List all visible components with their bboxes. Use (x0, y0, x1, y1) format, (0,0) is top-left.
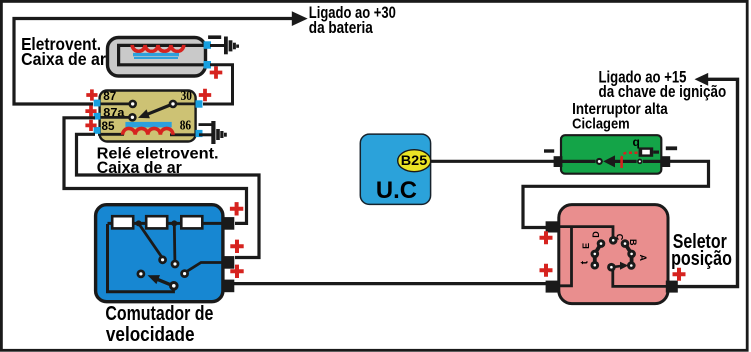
pressure element stub (653, 151, 659, 154)
relay wire stub pin 87a (98, 116, 130, 119)
switch terminal left (black tab) (554, 156, 563, 167)
svg-text:A: A (638, 255, 648, 262)
rotor pivot contact (171, 283, 178, 290)
plus sign at selector top-left (540, 231, 553, 244)
contact 4 (182, 271, 188, 277)
ground symbol (motor) (224, 37, 239, 55)
resistor R3 (181, 216, 202, 228)
svg-text:86: 86 (180, 119, 191, 134)
comutador terminal top (black tab) (223, 217, 234, 230)
speed switch (Comutador) body (96, 205, 223, 302)
plus sign at comutador middle terminal (230, 240, 243, 253)
switch internal wire middle (615, 160, 637, 163)
switch terminal right (black tab) (661, 156, 670, 167)
svg-text:velocidade: velocidade (106, 324, 195, 346)
wire dot A to contact 1 (139, 223, 163, 258)
electric motor M1 body (108, 38, 206, 77)
selector left jumper wire (558, 227, 572, 286)
relay switch arm with arrowhead (138, 104, 173, 118)
comutador left loop wire to rotor pivot (108, 224, 174, 292)
svg-text:B25: B25 (401, 153, 428, 168)
selector rotor wire to bottom-right terminal (613, 269, 668, 286)
relay coil (red) (123, 128, 173, 134)
motor brush bar upper (blue) (133, 53, 179, 56)
plus sign at relay 87a (85, 106, 96, 117)
relay wire stub pin 86 (170, 133, 199, 136)
plus sign at comutador bottom terminal (230, 265, 243, 278)
svg-text:C: C (614, 234, 624, 241)
motor terminal lower (blue connector) (204, 61, 211, 69)
selector contact B (621, 239, 630, 248)
link A-G (630, 254, 634, 266)
motor internal wire (119, 45, 206, 64)
selector terminal bottom-left (black tab) (546, 281, 560, 293)
wire +30 feed: top arrow line, down left side, to relay pin 87 (14, 19, 293, 105)
switch contact circle left (597, 159, 602, 164)
pressure element body (639, 147, 654, 156)
selector contact G (627, 261, 636, 270)
junction dot B (171, 220, 177, 226)
wire switch right terminal to selector top-left terminal (523, 161, 709, 227)
svg-text:posição: posição (671, 248, 732, 270)
ECU U.C body (360, 134, 430, 204)
plus sign at comutador top terminal (230, 202, 243, 215)
contact 1 (160, 257, 166, 263)
contact 2 (172, 261, 178, 267)
svg-text:Comutador de: Comutador de (105, 303, 213, 325)
relay terminal 86 (blue connector) (196, 130, 203, 137)
motor winding coil (red) (132, 45, 184, 51)
high cycling switch body (green) (561, 135, 661, 174)
svg-text:Ciclagem: Ciclagem (572, 115, 630, 132)
relay terminal 87 (blue connector) (94, 100, 101, 107)
wire ignition +15 to selector right terminal (677, 79, 738, 286)
selector contact C (609, 236, 618, 245)
svg-text:87: 87 (103, 89, 116, 103)
comutador terminal bottom (black tab) (223, 280, 234, 293)
resistor R1 (112, 216, 133, 228)
minus sign right of switch (666, 146, 677, 150)
red dashed link to pressure element (622, 153, 638, 159)
switch internal wire left (558, 160, 596, 163)
wire motor positive to relay pin 30 (203, 65, 233, 104)
svg-text:85: 85 (102, 119, 115, 133)
motor brush bar lower (blue) (134, 57, 178, 59)
resistor R2 (146, 216, 167, 228)
relay wire stub pin 30 (176, 103, 199, 106)
wire dot B to contact 2 (173, 223, 176, 262)
relay terminal 87a (blue connector) (94, 113, 101, 120)
plus sign at selector right (673, 268, 686, 281)
relay contact 30 (170, 101, 176, 107)
comutador top rail wire (108, 222, 225, 225)
connector B25 (yellow ellipse) (398, 150, 431, 172)
relay terminal 30 (blue connector) (196, 100, 203, 107)
junction dot A (136, 220, 142, 226)
svg-text:da bateria: da bateria (309, 18, 373, 37)
svg-text:30: 30 (181, 89, 192, 104)
link E-F (593, 254, 597, 265)
relay contact 87 (130, 101, 136, 107)
svg-text:U.C: U.C (376, 177, 417, 204)
svg-text:B: B (628, 239, 638, 246)
relay K1 body (100, 91, 196, 142)
wire relay 85 to speed switch middle terminal (77, 134, 260, 257)
red actuator tick (620, 159, 623, 169)
wire relay 86 to ground (199, 133, 212, 136)
svg-text:E: E (581, 243, 591, 249)
plus sign at relay 30 (199, 89, 211, 101)
selector rotor pivot (607, 263, 616, 272)
relay contact 87a (129, 114, 135, 120)
plus sign at relay 85 (85, 120, 96, 131)
plus sign at relay 87 (86, 89, 97, 100)
arrowhead to Ligado ao +30 (292, 11, 308, 26)
selector contact A (627, 250, 636, 259)
position selector body (pink) (559, 205, 668, 304)
rotor arm with arrowhead (148, 275, 177, 287)
switch contact circle right (638, 160, 642, 164)
pressure element slot (642, 150, 650, 155)
wire B25 to high-cycling switch (430, 160, 555, 163)
svg-text:q: q (633, 135, 640, 149)
relay wire stub pin 87 (98, 103, 130, 106)
selector terminal top-left (black tab) (546, 221, 560, 232)
contact 3 (138, 271, 144, 277)
relay wire stub pin 85 (98, 133, 124, 136)
minus sign at motor ground (208, 35, 221, 39)
comutador terminal middle (black tab) (223, 256, 234, 269)
relay core bar (blue) (125, 122, 171, 128)
switch arrowhead (points left) (603, 155, 615, 167)
motor terminal upper (blue connector) (204, 41, 211, 49)
selector contact D (597, 239, 606, 248)
selector top wire to contact C (558, 227, 613, 237)
link B-A (625, 244, 632, 254)
wire contact 4 to middle terminal (185, 263, 224, 273)
selector contact E (591, 250, 600, 259)
selector terminal bottom-right (black tab) (666, 281, 678, 293)
svg-text:D: D (591, 231, 601, 238)
relay terminal 85 (blue connector) (94, 127, 101, 134)
plus sign at selector bottom-left (540, 264, 553, 277)
arrowhead to +15 (695, 73, 709, 86)
wire motor to ground (210, 44, 225, 47)
link D-E (595, 244, 601, 254)
wire comutador bottom terminal to selector left-bottom terminal (234, 282, 549, 285)
selector contact F (591, 261, 600, 270)
wire stub above relay ground (199, 123, 214, 126)
plus sign at motor positive (210, 66, 223, 79)
minus sign left of switch (544, 149, 554, 152)
ground symbol (relay 86) (211, 121, 227, 144)
svg-text:Caixa de ar: Caixa de ar (21, 49, 106, 69)
switch internal wire right (643, 160, 665, 163)
rotor arm arrow (611, 262, 628, 270)
wire relay 87a to speed switch top terminal (64, 118, 247, 224)
